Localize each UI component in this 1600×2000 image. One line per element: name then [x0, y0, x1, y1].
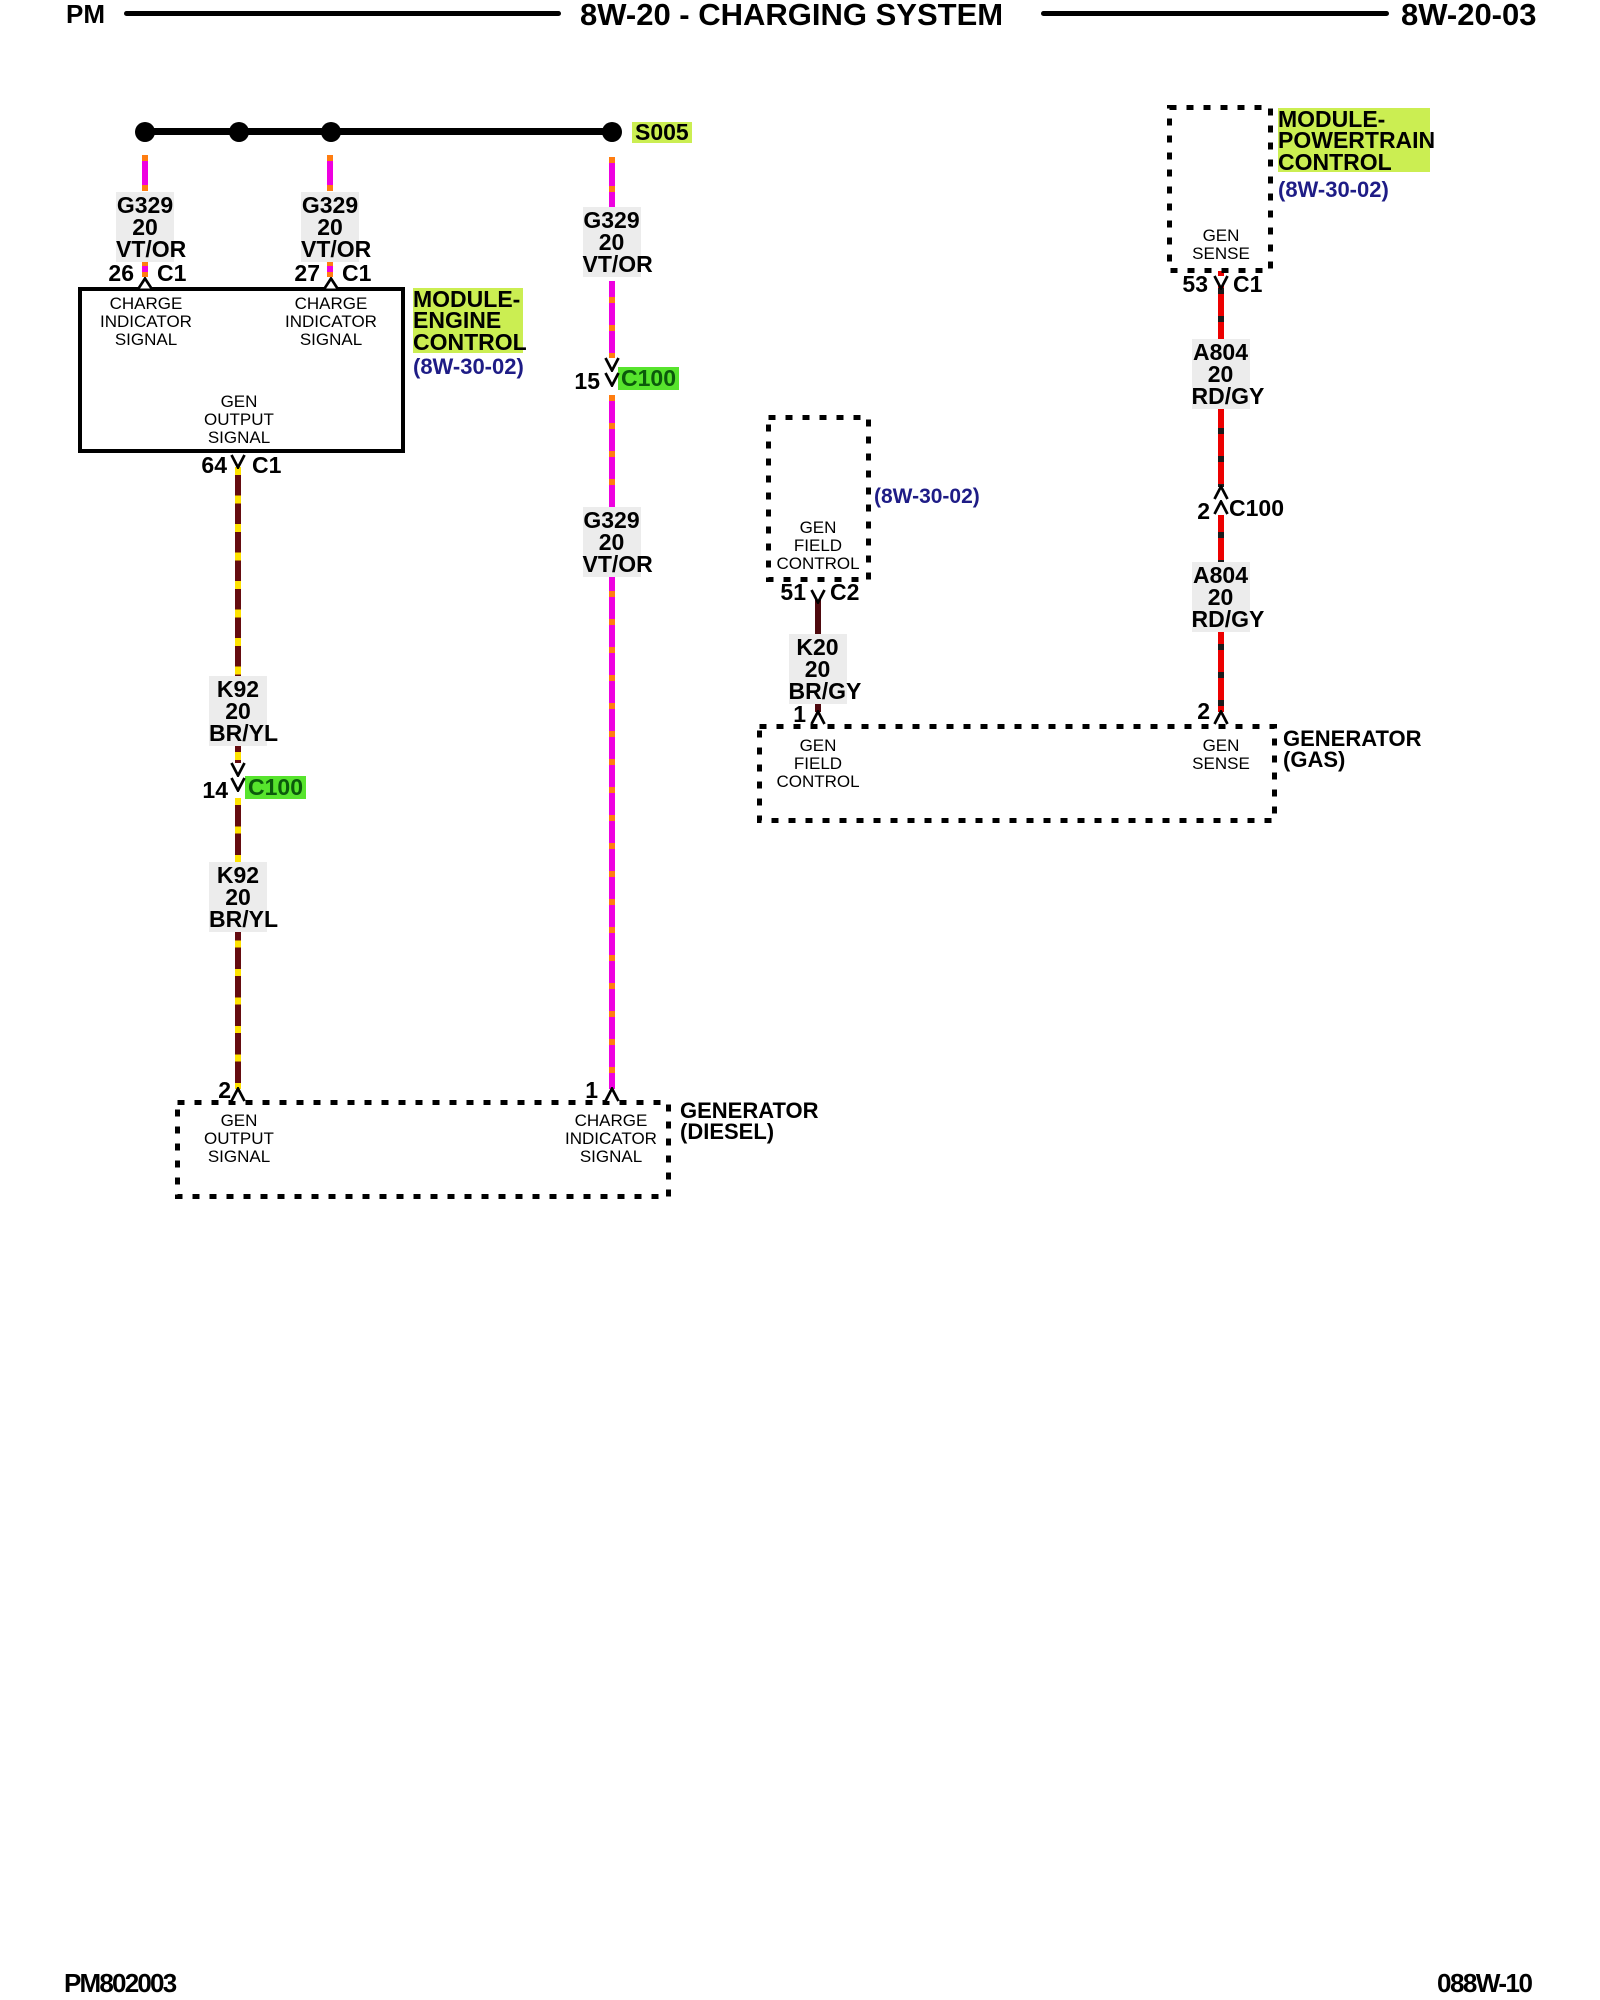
pin 15 number [574, 370, 600, 393]
generator diesel name label [680, 1100, 819, 1142]
wire label K20 20 BR/GY [789, 634, 847, 704]
generator gas dashed box [757, 724, 1277, 823]
pin 64 connector chevron [230, 454, 246, 469]
diesel generator pin 2 number [218, 1079, 231, 1102]
pin 51 number [780, 581, 806, 604]
wire label G329 20 VT/OR middle upper [583, 207, 641, 277]
pin 26 number [108, 262, 134, 285]
pin 26 connector name C1 [157, 262, 186, 285]
module pin label gen output signal (pin 64) [159, 393, 319, 447]
header page number 8W-20-03 [1401, 0, 1537, 30]
module powertrain control dashed box [1167, 105, 1273, 273]
gas generator pin 2 chevron [1213, 710, 1229, 725]
gen field control dashed box [766, 415, 871, 582]
wire A804 RD/GY upper segment [1218, 271, 1224, 487]
splice dot 2 [229, 122, 249, 142]
pin 27 connector name C1 [342, 262, 371, 285]
inline connector chevron 2 at C100 pin 14 [230, 777, 246, 792]
wire G329 VT/OR stub from splice to label, left branch 1 [142, 155, 148, 191]
pin 53 connector name C1 [1233, 273, 1262, 296]
wire label K92 20 BR/YL lower [209, 862, 267, 932]
connector name C100 (green) at pin 14 [245, 776, 306, 799]
module pin label charge indicator signal (pin 26) [66, 295, 226, 349]
connector name C100 at pin 2 [1229, 497, 1284, 520]
pin 53 number [1182, 273, 1208, 296]
gas gen field control label [738, 737, 898, 791]
wire A804 RD/GY lower segment [1218, 515, 1224, 712]
wire K20 BR/GY lower stub [815, 703, 821, 712]
gas gen sense label [1141, 737, 1301, 773]
generator gas name label [1283, 728, 1422, 770]
header title [580, 0, 1003, 30]
inline connector chevron 2 at C100 pin 15 [604, 372, 620, 387]
wire K92 BR/YL lower segment [235, 798, 241, 1089]
pin 26 connector chevron [137, 277, 153, 289]
wire label G329 20 VT/OR middle lower [583, 507, 641, 577]
splice dot 4 [602, 122, 622, 142]
pin 51 connector name C2 [830, 581, 859, 604]
pin 2 number at C100 [1197, 500, 1210, 523]
splice bus wire S005 [145, 128, 612, 135]
splice dot 3 [321, 122, 341, 142]
wire label A804 20 RD/GY lower [1192, 562, 1250, 632]
pin 53 connector chevron [1213, 275, 1229, 290]
pcm gen sense label [1141, 227, 1301, 263]
wire label K92 20 BR/YL upper [209, 676, 267, 746]
wire label A804 20 RD/GY upper [1192, 339, 1250, 409]
diesel gen output signal label [159, 1112, 319, 1166]
header rule left [124, 11, 561, 16]
diesel generator pin 1 number [585, 1079, 598, 1102]
wire label G329 20 VT/OR branch 1 [116, 192, 174, 262]
inline connector chevron 2 at C100 pin 2 [1213, 500, 1229, 515]
module engine control box [78, 287, 405, 453]
wire G329 stub into pin 27 [327, 261, 333, 277]
pin 14 number [202, 779, 228, 802]
inline connector chevron 1 at C100 pin 14 [230, 762, 246, 777]
diesel charge indicator signal label [531, 1112, 691, 1166]
wire G329 stub into pin 26 [142, 261, 148, 277]
pin 27 connector chevron [323, 277, 339, 289]
header left text PM [66, 1, 105, 27]
wire G329 VT/OR stub from splice to label, branch 2 [327, 155, 333, 191]
gen field control box label [738, 519, 898, 573]
module pin label charge indicator signal (pin 27) [251, 295, 411, 349]
pin 64 connector name C1 [252, 454, 281, 477]
module powertrain control name label [1278, 108, 1430, 201]
reference (8W-30-02) near gen field control [874, 485, 980, 508]
inline connector chevron 1 at C100 pin 15 [604, 357, 620, 372]
header rule right [1041, 11, 1389, 16]
connector name C100 (green) at pin 15 [618, 367, 679, 390]
gas generator pin 1 number [793, 703, 806, 726]
footer code 088W-10 [1437, 1970, 1531, 1996]
pin 27 number [294, 262, 320, 285]
pin 51 connector chevron [810, 589, 826, 604]
wire K92 BR/YL upper segment [235, 467, 241, 763]
wire G329 segment above inline connector C100 [609, 281, 615, 359]
splice label S005 [632, 122, 692, 143]
generator diesel dashed box [175, 1100, 671, 1199]
wire G329 VT/OR stub from splice, middle branch [609, 157, 615, 207]
module engine control name label [413, 288, 524, 378]
inline connector chevron 1 at C100 pin 2 [1213, 485, 1229, 500]
pin 64 number [201, 454, 227, 477]
diesel generator pin 2 chevron [230, 1087, 246, 1102]
gas generator pin 1 chevron [810, 710, 826, 725]
gas generator pin 2 number [1197, 700, 1210, 723]
splice dot 1 [135, 122, 155, 142]
wire G329 VT/OR long segment to diesel generator [609, 395, 615, 1089]
wire label G329 20 VT/OR branch 2 [301, 192, 359, 262]
diesel generator pin 1 chevron [604, 1087, 620, 1102]
wire K20 BR/GY upper stub [815, 592, 821, 636]
footer code PM802003 [64, 1970, 175, 1996]
